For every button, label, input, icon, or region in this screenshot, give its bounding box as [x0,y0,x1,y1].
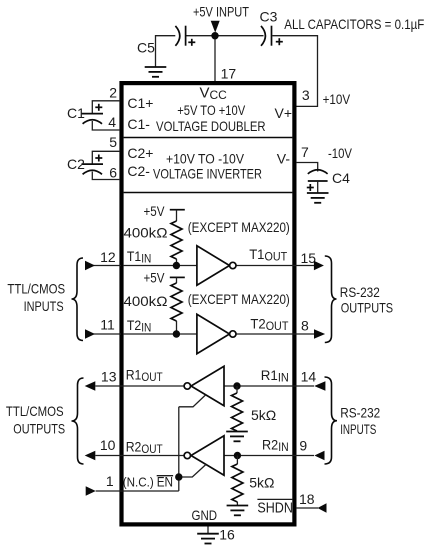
svg-text:(EXCEPT MAX220): (EXCEPT MAX220) [188,219,290,235]
capacitor C3 [261,26,283,46]
svg-text:INPUTS: INPUTS [24,298,64,314]
svg-text:C1+: C1+ [127,95,153,111]
overline SHDN [257,498,293,500]
svg-text:C2-: C2- [127,163,150,179]
svg-text:5kΩ: 5kΩ [251,407,276,423]
svg-text:VOLTAGE DOUBLER: VOLTAGE DOUBLER [156,118,266,134]
wire EN vertical [178,407,180,491]
op-amp R2 inverter [191,436,224,475]
svg-text:C4: C4 [332,170,350,186]
wire T2IN row [123,333,197,335]
svg-text:OUTPUTS: OUTPUTS [13,421,65,437]
wire R2OUT row [95,455,184,457]
svg-text:V-: V- [277,151,291,167]
ground 5k R1 [226,432,248,442]
divider line inverter [124,192,293,194]
svg-text:1: 1 [106,473,114,489]
svg-text:C1-: C1- [127,116,150,132]
wire pin 12 stub [93,265,121,267]
+5V bar T2 [170,276,185,278]
svg-text:ALL CAPACITORS = 0.1µF: ALL CAPACITORS = 0.1µF [284,16,424,32]
svg-text:+5V TO +10V: +5V TO +10V [177,103,245,118]
resistor 5k R2IN [232,456,243,506]
wire R1IN row [224,385,314,387]
wire R1OUT row [95,385,184,387]
ground C5 [145,67,167,77]
ground 5k R2 [227,506,249,516]
svg-text:3: 3 [302,87,310,103]
resistor 400k T1 [171,210,182,266]
junction dot T2 [173,330,180,337]
wire pin 11 stub [93,333,121,335]
svg-text:V+: V+ [274,105,292,121]
capacitor C2 [82,155,104,175]
arrow pin 9 [314,451,324,461]
svg-text:C3: C3 [260,8,278,24]
wire pin 6 [92,172,119,180]
IC box MAX220/MAX232 [122,83,295,524]
wire C5 to ground [156,36,176,67]
arrow +5V input [211,21,220,33]
svg-text:TTL/CMOS: TTL/CMOS [7,281,65,297]
svg-text:12: 12 [100,249,116,265]
svg-text:2: 2 [109,85,117,101]
svg-text:C2: C2 [67,156,85,172]
bubble T1 [230,262,236,268]
svg-text:OUTPUTS: OUTPUTS [341,300,393,316]
wire pin 2 [92,101,119,114]
svg-text:SHDN: SHDN [257,499,293,516]
svg-text:6: 6 [109,164,117,180]
bubble R2 [184,452,190,458]
wire C4 lead [317,181,319,193]
arrow pin 11 [85,329,95,339]
svg-text:+5V: +5V [144,203,166,219]
svg-text:8: 8 [301,318,309,334]
svg-text:RS-232: RS-232 [340,284,380,300]
svg-text:INPUTS: INPUTS [340,421,376,437]
ground C4 [307,193,329,203]
wire T1IN row [123,265,197,267]
arrow pin 18 [318,503,327,513]
svg-text:(EXCEPT MAX220): (EXCEPT MAX220) [188,291,290,307]
resistor 400k T2 [171,277,182,334]
wire pin 16 stem [207,527,209,534]
svg-text:10: 10 [100,437,116,453]
arrow pin 8 [314,329,325,339]
arrow pin 12 [85,261,95,271]
junction dot EN [175,473,182,480]
wire R2IN row [224,455,314,457]
arrow pin 13 [85,381,96,391]
wire EN row pin 1 [96,490,179,492]
svg-text:+10V: +10V [323,91,351,107]
svg-text:TTL/CMOS: TTL/CMOS [6,403,64,419]
op-amp T2 inverter [197,314,230,353]
svg-text:11: 11 [100,317,115,333]
wire pin 7 V- [296,163,318,172]
+5V bar T1 [170,209,185,211]
svg-text:C5: C5 [137,40,155,56]
svg-text:13: 13 [101,368,117,384]
svg-text:5: 5 [109,134,117,150]
svg-text:+10V TO -10V: +10V TO -10V [166,152,244,167]
arrow pin 10 [85,451,96,461]
resistor 5k R1IN [232,386,243,432]
arrow pin 15 [314,261,324,271]
enable stub R1 [179,395,206,407]
wire T2OUT row [236,333,314,335]
wire pin 18 SHDN [296,507,318,509]
node dot +5V [211,32,218,39]
svg-text:C1: C1 [67,105,85,121]
op-amp T1 inverter [197,246,230,285]
svg-text:5kΩ: 5kΩ [249,475,274,491]
svg-text:17: 17 [221,66,237,82]
svg-text:9: 9 [299,438,307,454]
op-amp R1 inverter [191,366,224,405]
capacitor C5 [175,26,195,46]
enable stub R2 [179,465,206,478]
svg-text:7: 7 [301,144,309,160]
svg-text:VCC: VCC [200,85,228,102]
bubble R1 [184,383,190,389]
svg-text:-10V: -10V [328,145,353,161]
wire pin 4 [92,121,119,130]
wire +5V node horizontal [186,35,264,37]
svg-text:14: 14 [301,369,317,385]
wire T1OUT row [236,265,314,267]
svg-text:+5V INPUT: +5V INPUT [193,4,249,20]
svg-text:400kΩ: 400kΩ [124,293,168,309]
svg-text:RS-232: RS-232 [340,405,380,421]
arrow pin 14 [314,381,325,391]
junction dot R2IN [234,452,241,459]
brace RS-232 inputs [325,377,338,464]
ground pin 16 [197,534,219,544]
divider line doubler [124,137,293,139]
junction dot R1IN [233,382,240,389]
brace TTL/CMOS outputs [72,378,84,464]
svg-text:+5V: +5V [144,270,166,286]
brace RS-232 outputs [325,256,337,343]
wire pin 17 to node [214,36,216,82]
capacitor C1 [82,104,104,124]
overline EN [157,475,173,477]
arrow pin 1 [86,486,96,496]
svg-text:18: 18 [299,491,315,507]
svg-text:GND: GND [192,507,218,523]
svg-text:VOLTAGE INVERTER: VOLTAGE INVERTER [153,166,262,182]
svg-text:4: 4 [108,114,116,130]
svg-text:C2+: C2+ [127,145,153,161]
svg-text:(N.C.): (N.C.) [123,475,154,490]
bubble T2 [230,331,236,337]
svg-text:400kΩ: 400kΩ [124,225,168,241]
capacitor C4 [307,170,328,191]
wire C3 to V+ pin 3 [272,36,317,107]
brace TTL/CMOS inputs [72,258,84,341]
junction dot T1 [173,262,180,269]
svg-text:16: 16 [219,527,235,543]
wire pin 5 [92,151,119,164]
